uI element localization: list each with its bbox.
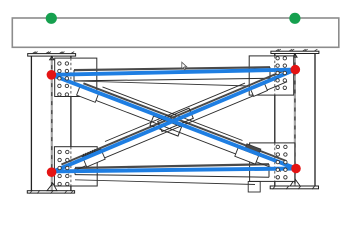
column C1 cap plate [28, 54, 76, 57]
loading beam (top box) [12, 18, 339, 47]
beam B1 (top strut outline) [74, 67, 270, 81]
bracket K1 (brace D1 end, near G1) [77, 85, 100, 102]
column C2 centerline [294, 54, 296, 187]
column C1 left flange [30, 56, 32, 191]
beam B1 lower flange line [74, 81, 250, 86]
bolts gusset G1 [58, 62, 69, 96]
bracket K4 (brace D2 end, near G3) [250, 82, 267, 96]
column C2 left flange hidden line 2 [274, 143, 276, 182]
column C1 right flange [70, 56, 72, 191]
column C1 base stiffener [47, 183, 57, 191]
column C2 base stiffener [290, 179, 300, 186]
gusset plate G3 (top-right) [249, 56, 294, 95]
node TR (red) [291, 65, 301, 75]
column C2 base plate [270, 186, 318, 189]
splice plate S2 (center, along D1) [150, 116, 182, 136]
bolts gusset G4 [276, 145, 287, 179]
beam B2 (bottom strut outline) [75, 164, 269, 177]
node G2 (green, on loading beam) [289, 13, 300, 24]
column C1 (left) [31, 56, 71, 191]
column C2 left flange hidden line [274, 56, 276, 95]
node G1 (green, on loading beam) [46, 13, 57, 24]
gusset plate G4 (bottom-right) [250, 143, 295, 182]
node BL (red) [47, 167, 57, 177]
column C1 cap weld mark [50, 56, 54, 60]
bolts gusset G3 [276, 57, 287, 90]
brace D1 outline (TL to BR) [83, 83, 286, 171]
brace axis top tie (blue) [51, 70, 295, 75]
gusset tab G4b [248, 182, 260, 193]
brace axis bottom tie (blue) [52, 169, 296, 172]
splice plate S1 (center, along D2) [158, 108, 194, 131]
brace D2 outline (BL to TR) [61, 70, 287, 173]
gusset plate G1 (top-left) [55, 58, 97, 96]
bracket K3 (brace D2 end, near G2) [82, 147, 106, 167]
node TL (red) [47, 70, 57, 80]
gusset plate G2 (bottom-left) [54, 147, 97, 186]
brace axis D2 (blue) [52, 70, 296, 173]
column C1 right flange hidden line 2 [70, 147, 72, 186]
column C2 cap plate [271, 51, 319, 53]
column C2 cap weld mark [293, 54, 297, 58]
column C2 (right) [275, 54, 315, 187]
column C1 right flange hidden line [70, 58, 72, 96]
bolts gusset G2 [58, 150, 69, 185]
column C1 base plate [27, 191, 74, 193]
brace axis D1 (blue) [51, 75, 296, 169]
column C1 centerline [51, 56, 53, 191]
column C2 left flange [274, 54, 276, 187]
bracket K2 (brace D1 end, near G4) [235, 148, 259, 164]
mouse cursor [182, 62, 187, 70]
beam B2 lower flange line [75, 180, 255, 185]
column C2 right flange [314, 54, 316, 187]
node BR (red) [291, 164, 301, 174]
